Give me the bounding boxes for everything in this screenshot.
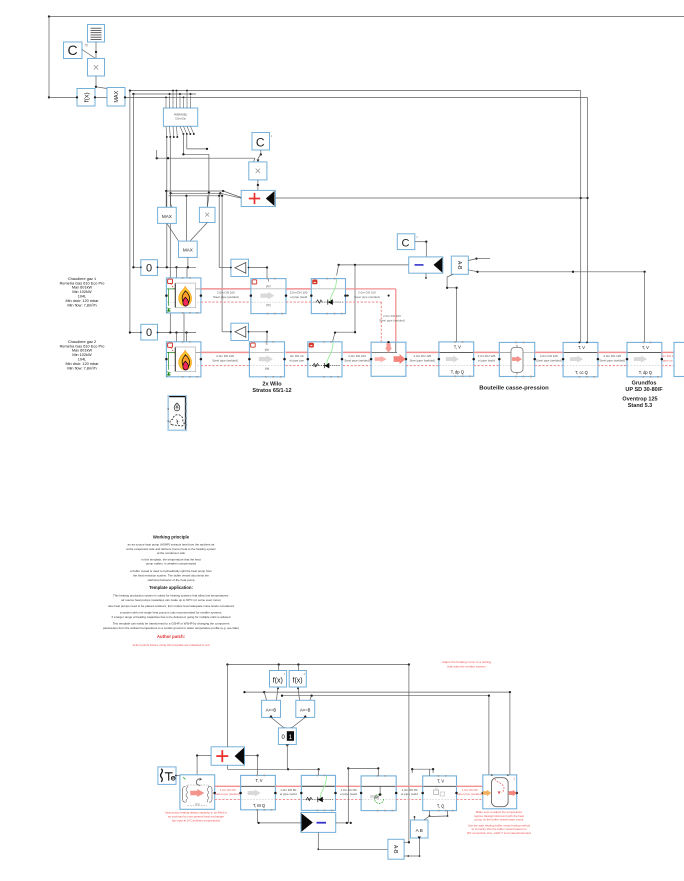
svg-text:Chaudiere gaz 2: Chaudiere gaz 2	[68, 340, 96, 344]
wire bundle y195.8	[168, 195, 223, 197]
red note heat pump capacity	[165, 811, 227, 823]
svg-text:Min flow: 7,8m³/h: Min flow: 7,8m³/h	[67, 303, 96, 308]
subtractor MIN1	[409, 257, 443, 273]
junction block J1	[370, 341, 407, 376]
sensor S1	[438, 341, 475, 377]
wire boiler1 rail	[132, 266, 196, 268]
check valve CV1	[310, 278, 347, 315]
partial block at right edge	[674, 342, 684, 376]
red note buffer vessel 2	[467, 823, 531, 835]
svg-text:C: C	[402, 238, 410, 250]
wire bus into SUM2 top	[226, 665, 228, 747]
wire vertical x587.5 to sensor S2	[586, 97, 588, 342]
pipe BT1-S2	[535, 352, 563, 365]
zero block Z2	[140, 324, 159, 340]
svg-text:1,0m DN 80: 1,0m DN 80	[401, 788, 417, 792]
svg-text:T, V: T, V	[578, 345, 585, 350]
svg-text:Chaudiere gaz 1: Chaudiere gaz 1	[68, 277, 96, 281]
svg-text:(as input at 0°C ambient tempe: (as input at 0°C ambient temperature)	[172, 819, 220, 823]
label 1 sup	[271, 134, 273, 138]
wire stubs into boiler B2	[177, 333, 187, 342]
svg-text:T, V: T, V	[454, 344, 461, 349]
multiplier MUL2	[249, 162, 267, 180]
controller MP1 top pins	[165, 90, 191, 108]
comparator AB1 rotated	[451, 256, 468, 274]
wire TBL1 to MUL1	[95, 42, 97, 59]
svg-text:104L: 104L	[78, 295, 87, 299]
wire MUL3 top	[206, 196, 208, 208]
wire SUM2 left to heatpump HP1	[196, 754, 211, 774]
label Grundfos	[622, 381, 663, 410]
max block MAX1	[107, 88, 125, 107]
constant C1	[64, 42, 83, 59]
svg-text:104L: 104L	[78, 358, 87, 362]
svg-text:action points before using thi: action points before using this template…	[133, 643, 210, 647]
svg-text:ȳ̩(ν): ȳ̩(ν)	[266, 284, 271, 289]
svg-text:T, M Q: T, M Q	[253, 803, 265, 808]
multiplier MUL1	[88, 59, 105, 77]
svg-text:Template application:: Template application:	[149, 585, 193, 590]
wire long vertical x408.9	[408, 665, 410, 844]
svg-text:DN connection size, width T an: DN connection size, width T and material…	[467, 831, 531, 835]
svg-text:f(x): f(x)	[83, 92, 90, 102]
constant C2	[252, 133, 270, 151]
wire AB1 out upper	[468, 257, 490, 260]
pump P2	[248, 341, 286, 378]
svg-text:0: 0	[146, 327, 152, 339]
svg-text:Remeha Gas 610 Eco Pro: Remeha Gas 610 Eco Pro	[60, 344, 105, 348]
svg-text:Stratos 65/1-12: Stratos 65/1-12	[252, 388, 291, 394]
function block FX2	[270, 671, 287, 688]
heat pump block HP1	[180, 775, 216, 810]
svg-text:Min flow: 7,8m³/h: Min flow: 7,8m³/h	[67, 366, 96, 371]
svg-text:A>=B: A>=B	[266, 708, 277, 713]
svg-text:C: C	[256, 136, 265, 150]
pipe CV1 elbow down to junction J1	[346, 289, 405, 342]
sensor S4	[421, 775, 457, 811]
wire AB2 right top	[404, 841, 408, 843]
wire GE2 top left stub	[310, 696, 312, 700]
valve block V1	[300, 775, 337, 812]
wire MP1 pin elbow A	[182, 134, 209, 155]
wire left vertical from top bus	[48, 17, 50, 99]
wire bus C y97.5	[124, 96, 588, 98]
paragraph P8 red	[133, 643, 210, 647]
multiplier MUL3	[199, 207, 215, 222]
wire y769.3 to valve V1	[227, 765, 319, 775]
comparator GE1	[262, 700, 281, 717]
subtractor MIN2	[301, 813, 336, 833]
weather input block W1	[167, 396, 187, 431]
wire buffer top right	[509, 692, 511, 775]
wire bottom bus y664.5	[226, 663, 410, 665]
svg-text:ƒ(h): ƒ(h)	[265, 367, 270, 371]
svg-text:f(x): f(x)	[293, 678, 303, 685]
paragraph P4	[113, 594, 229, 602]
wire vertical x129.9 to zero block Z2	[129, 91, 131, 333]
wire y264.9 to MIN1	[337, 264, 408, 266]
pipe HP1-S3 red	[215, 786, 241, 799]
svg-text:at the condensor side: at the condensor side	[157, 551, 185, 555]
svg-text:Steel pipe (welded): Steel pipe (welded)	[457, 792, 483, 796]
pipe V1-MX1	[336, 786, 361, 799]
wire to amp A2	[222, 196, 231, 332]
svg-text:Steel pipe (welded): Steel pipe (welded)	[212, 358, 238, 362]
wire FX2 to GE1	[277, 687, 279, 700]
wire sensor S1 up	[446, 274, 458, 342]
wire MIN1 bottom pin	[425, 273, 427, 279]
pipe B2-P2	[201, 352, 250, 365]
label boiler B2 text	[60, 340, 105, 371]
wire SW1 down to valve V1	[287, 744, 289, 770]
svg-text:1,0m DN 80: 1,0m DN 80	[462, 788, 478, 792]
wire FX2 top	[278, 665, 280, 671]
svg-text:el pipe (weld: el pipe (weld	[478, 358, 495, 362]
heading author patch	[157, 634, 186, 639]
wire A2 to pump P2	[249, 331, 269, 342]
svg-text:A B: A B	[416, 828, 423, 833]
summator SUM1	[241, 190, 275, 206]
wire FX1 to MAX1	[94, 96, 107, 98]
wire bus y695.7	[281, 695, 490, 697]
svg-text:2x Wilo: 2x Wilo	[262, 382, 282, 388]
svg-text:T, V: T, V	[255, 778, 262, 783]
svg-text:2,0m DN 125: 2,0m DN 125	[540, 354, 558, 358]
svg-text:2,0m DN 100: 2,0m DN 100	[358, 290, 376, 294]
svg-text:Author patch:: Author patch:	[157, 634, 186, 639]
svg-text:Min druk: 120 mbar: Min druk: 120 mbar	[65, 299, 99, 303]
wire elbow to CV2	[333, 331, 356, 341]
svg-text:2,0m DN 100: 2,0m DN 100	[217, 290, 235, 294]
summator SUM2	[211, 747, 244, 766]
function block FX3	[289, 671, 306, 688]
svg-text:MAX: MAX	[114, 90, 120, 102]
outdoor temperature block TE1	[158, 767, 182, 785]
svg-text:el pipe (we: el pipe (we	[289, 358, 304, 362]
wire MP1 pin to boiler2 rail	[169, 137, 171, 333]
svg-text:Max 601kW: Max 601kW	[72, 286, 93, 290]
wire vertical x580.7 to sensor S2	[580, 91, 582, 342]
svg-text:parameters from the ambient te: parameters from the ambient temperature …	[103, 626, 239, 630]
label 1 sup C3	[416, 235, 418, 239]
svg-text:el pipe (weld: el pipe (weld	[340, 792, 357, 796]
svg-text:ȳ̩(ν): ȳ̩(ν)	[264, 348, 269, 353]
function block FX1	[77, 89, 95, 107]
heading template application	[149, 585, 193, 590]
wire bundle y191	[165, 190, 241, 198]
paragraph P3	[130, 569, 212, 582]
wire GE1 top left stub	[264, 692, 266, 700]
svg-text:Grundfos: Grundfos	[632, 381, 657, 387]
svg-text:UP SD 30-80/F: UP SD 30-80/F	[625, 387, 663, 393]
wire FX3 to GE2	[297, 687, 299, 700]
pipe S1-BT1	[474, 352, 500, 365]
wire to MAX2 input b	[171, 193, 172, 207]
boiler B1 Remeha	[165, 277, 202, 314]
svg-text:0.5x+0.5y: 0.5x+0.5y	[175, 118, 186, 121]
svg-text:Steel pipe (welded): Steel pipe (welded)	[354, 295, 380, 299]
heading working principle	[153, 535, 190, 540]
red note heating curve	[442, 660, 491, 669]
red note buffer vessel 1	[474, 810, 524, 822]
label 75	[84, 44, 88, 48]
amplifier A1	[230, 259, 249, 276]
paragraph P2	[141, 557, 200, 565]
wire MAX3 down to boiler rail	[187, 257, 189, 267]
svg-text:Remeha Gas 610 Eco Pro: Remeha Gas 610 Eco Pro	[60, 281, 105, 285]
svg-text:Steel pipe (welded): Steel pipe (welded)	[213, 295, 239, 299]
wire AB2 right bottom	[404, 838, 420, 857]
wire bus B y94	[132, 93, 196, 95]
svg-text:1,0m DN 80: 1,0m DN 80	[220, 788, 236, 792]
svg-text:0m DN 10: 0m DN 10	[290, 354, 304, 358]
amplifier A2	[230, 323, 249, 340]
buffer vessel BUF1	[482, 774, 518, 809]
svg-text:pipe (w: pipe (w	[663, 358, 674, 362]
svg-text:2,0m DN 100: 2,0m DN 100	[383, 314, 401, 318]
svg-text:Steel pipe (welded): Steel pipe (welded)	[536, 358, 562, 362]
svg-text:⌠⌡: ⌠⌡	[434, 786, 438, 790]
svg-text:el pipe (weld: el pipe (weld	[401, 792, 418, 796]
wire SUM2 right to sensor S3	[245, 754, 259, 775]
wire MIN2 bottom to AB2	[317, 832, 388, 850]
label bottle	[479, 386, 549, 392]
wire top horizontal bus	[48, 15, 684, 17]
svg-text:that suits the emitter system: that suits the emitter system	[447, 665, 486, 669]
pipe S3-V1	[275, 786, 301, 799]
wire A1 to pump P1	[249, 266, 269, 278]
svg-text:2,0m DN 100: 2,0m DN 100	[290, 290, 308, 294]
wire to amp A1	[219, 196, 231, 268]
wire long y158.2	[156, 150, 255, 162]
svg-text:Steel pipe (welded): Steel pipe (welded)	[599, 358, 625, 362]
pipe B1-P1	[201, 289, 251, 302]
wire C1 to MUL1	[82, 50, 96, 59]
wire S3 bottom to MIN2	[258, 810, 301, 824]
max block MAX3	[179, 241, 198, 257]
svg-text:T, dp Q: T, dp Q	[639, 370, 652, 375]
svg-text:1,0m DN 80: 1,0m DN 80	[341, 788, 357, 792]
wire S4 bottom pins to AB3	[414, 811, 449, 820]
svg-text:2,0m DN 100: 2,0m DN 100	[348, 354, 366, 358]
wire MIN2 out right	[336, 822, 352, 824]
wire MP1 pin elbow B	[187, 134, 208, 150]
svg-text:I-1: I-1	[306, 798, 310, 802]
table lookup block TBL1	[88, 25, 105, 43]
wire TE1 to HP1	[176, 775, 180, 777]
svg-text:Min druk: 120 mbar: Min druk: 120 mbar	[65, 362, 99, 366]
svg-text:2,0m DN 125: 2,0m DN 125	[414, 354, 432, 358]
wire bus into FX1	[49, 96, 78, 98]
wire buffer top left	[488, 696, 490, 775]
wire vertical x133.4 to zero block Z1	[132, 94, 134, 267]
paragraph P6	[112, 611, 231, 619]
wire to MAX2 input a	[165, 191, 167, 207]
comparator GE2	[296, 700, 315, 717]
svg-text:Max 601kW: Max 601kW	[72, 349, 93, 353]
wire x208.9 down to MUL3	[207, 154, 210, 207]
wire GE2 to switch	[290, 717, 305, 729]
wire C2 to MUL2 with arrow	[257, 150, 262, 162]
check valve CV2	[307, 341, 344, 378]
svg-text:I-1: I-1	[313, 364, 317, 368]
pipe S4-BUF red	[457, 786, 483, 799]
svg-text:T, cc Q: T, cc Q	[575, 370, 588, 375]
wire MIN2 feedback up to MX1	[347, 767, 379, 823]
paragraph P1	[126, 543, 216, 556]
svg-text:ƒ(h): ƒ(h)	[266, 303, 271, 307]
paragraph P7	[103, 622, 239, 630]
boiler B2 Remeha	[165, 341, 202, 378]
wire MAX2 to MAX3 diagonal	[167, 223, 179, 241]
svg-text:Min 102kW: Min 102kW	[72, 353, 92, 357]
pipe CV2-J1	[343, 352, 371, 365]
pump GP1 Grundfos	[626, 342, 663, 378]
svg-text:Stand 5.3: Stand 5.3	[628, 403, 652, 409]
comparator AB3	[411, 820, 429, 839]
zero block Z1	[140, 260, 159, 276]
controller MP1 bottom pins	[166, 126, 195, 138]
wire sensor S4 top stub	[411, 768, 434, 776]
wire AB1 out lower	[468, 270, 478, 273]
max block MAX2	[158, 207, 177, 223]
cascade controller MP1	[163, 108, 197, 126]
wire C3 to MIN1	[415, 241, 428, 257]
svg-text:MAX: MAX	[162, 214, 172, 219]
wire bundle y193.3	[169, 192, 241, 198]
wire bus A y90.6	[129, 89, 581, 91]
svg-text:×: ×	[204, 210, 210, 221]
mixing block MX1	[360, 775, 398, 811]
svg-text:Working principle: Working principle	[153, 535, 190, 540]
label pumps Wilo	[252, 382, 291, 395]
wire x355 down	[354, 265, 356, 333]
wire into check valve CV1	[337, 265, 339, 276]
svg-text:A-B: A-B	[392, 845, 398, 854]
svg-text:C: C	[67, 42, 77, 58]
wire FX3 top	[297, 665, 299, 671]
svg-text:T, V: T, V	[437, 778, 444, 783]
svg-text:2,0m DN 125: 2,0m DN 125	[603, 354, 621, 358]
svg-text:Adjust the heating curve to a: Adjust the heating curve to a setting	[442, 660, 491, 664]
wire MP1 pin to boiler1 rail	[166, 137, 168, 267]
svg-text:pump makes, is weather compens: pump makes, is weather compensated	[146, 562, 197, 566]
pipe GP1-edge red	[661, 352, 674, 365]
svg-text:also heat pumps need to be pla: also heat pumps need to be placed outdoo…	[108, 604, 234, 608]
svg-text:f(x): f(x)	[273, 678, 283, 685]
svg-text:T, Q: T, Q	[437, 804, 445, 809]
svg-text:T, dp Q: T, dp Q	[451, 369, 464, 374]
switch block SW1	[278, 728, 296, 747]
wire S2 top pins	[579, 342, 588, 344]
wire MUL1 out	[95, 76, 107, 89]
label boiler B1 text	[60, 277, 105, 308]
svg-text:ƒ(v): ƒ(v)	[195, 802, 200, 806]
wire boiler2 rail	[129, 331, 196, 333]
sensor S3	[239, 775, 276, 811]
wire SUM1 output to sensors	[275, 197, 587, 199]
bottle BT1 casse-pression	[498, 342, 536, 378]
svg-text:Steel pipe (welded): Steel pipe (welded)	[215, 792, 241, 796]
svg-text:A-B: A-B	[456, 261, 462, 270]
svg-text:0m DN 1: 0m DN 1	[662, 354, 674, 358]
wire stubs into boiler B1	[177, 267, 188, 278]
svg-text:T, V: T, V	[642, 345, 649, 350]
svg-text:0: 0	[146, 263, 152, 275]
svg-text:MAX: MAX	[183, 248, 193, 253]
pipe MX1-S4	[396, 786, 423, 799]
svg-text:Steel pipe (welded): Steel pipe (welded)	[344, 358, 370, 362]
wire boiler B1 bottom to B2 top	[183, 313, 185, 342]
svg-text:×: ×	[255, 166, 261, 178]
svg-text:Steel pipe (welded): Steel pipe (welded)	[379, 319, 405, 323]
wire y271.8 to Grundfos GP1	[478, 271, 646, 343]
paragraph P5	[108, 604, 234, 608]
sensor S2	[562, 342, 599, 378]
svg-text:|M|: |M|	[374, 796, 378, 800]
svg-text:pump on the buffer vessel base: pump on the buffer vessel base circuit	[475, 818, 524, 822]
svg-text:A>=B: A>=B	[300, 708, 311, 713]
svg-text:air source heat pumps nowadays: air source heat pumps nowadays can make …	[121, 598, 220, 602]
svg-text:Steel pipe (welded): Steel pipe (welded)	[410, 358, 436, 362]
constant C3	[397, 234, 415, 250]
wire GE1 to switch	[271, 717, 286, 729]
svg-text:Bouteille casse-pression: Bouteille casse-pression	[479, 386, 549, 392]
svg-text:Oventrop 125: Oventrop 125	[622, 397, 657, 403]
svg-text:75: 75	[84, 44, 88, 48]
pipe S2-GP1	[598, 352, 628, 365]
pump P1	[250, 278, 288, 315]
wire MUL3 to MAX3 diagonal	[190, 223, 207, 242]
wire to MAX3 top	[185, 196, 187, 241]
pipe P2-CV2	[286, 352, 308, 365]
wire bus y692.1	[243, 691, 511, 693]
svg-text:el pipe (weld: el pipe (weld	[280, 792, 297, 796]
svg-text:2,0m DN 100: 2,0m DN 100	[216, 354, 234, 358]
svg-text:Min 102kW: Min 102kW	[72, 290, 92, 294]
svg-text:2,0m DN 125: 2,0m DN 125	[478, 354, 496, 358]
wire MUL2 to SUM1	[257, 180, 259, 191]
svg-text:AVERAGE(): AVERAGE()	[174, 114, 187, 117]
svg-text:1,0m DN 80: 1,0m DN 80	[280, 788, 296, 792]
pipe J1-S1	[406, 352, 439, 365]
comparator AB2 rotated	[388, 839, 404, 859]
pipe P1-CV1	[286, 289, 311, 302]
svg-text:start/stop behavior of the hea: start/stop behavior of the heat pump	[147, 578, 194, 582]
svg-text:×: ×	[93, 62, 99, 74]
svg-text:if a larger range of heating c: if a larger range of heating capacities …	[112, 615, 231, 619]
svg-text:el pipe (weld: el pipe (weld	[290, 295, 307, 299]
